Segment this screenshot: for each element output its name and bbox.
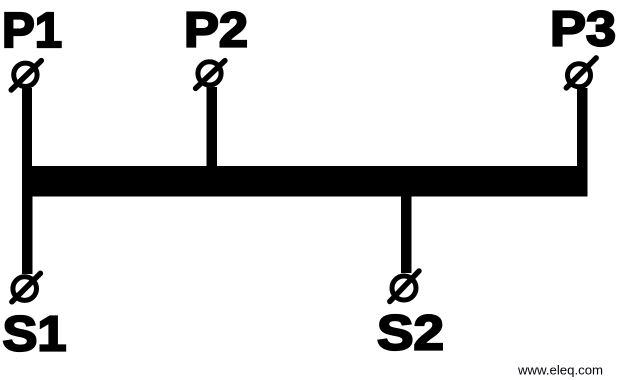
svg-text:P1: P1 xyxy=(2,4,62,58)
svg-text:P3: P3 xyxy=(550,3,616,57)
svg-text:P2: P2 xyxy=(184,4,248,58)
svg-text:www.eleq.com: www.eleq.com xyxy=(517,363,603,378)
svg-text:S2: S2 xyxy=(377,307,444,361)
svg-text:S1: S1 xyxy=(3,308,67,362)
